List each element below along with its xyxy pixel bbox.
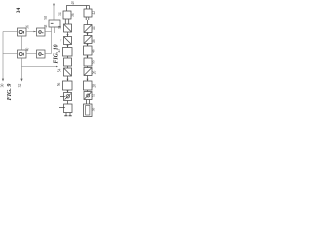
svg-text:46: 46 xyxy=(92,39,96,43)
svg-text:34: 34 xyxy=(16,8,22,14)
svg-text:28: 28 xyxy=(93,84,97,88)
svg-text:34: 34 xyxy=(58,12,62,16)
svg-text:FIG. 10: FIG. 10 xyxy=(53,44,59,63)
svg-text:30: 30 xyxy=(1,84,5,88)
svg-text:40: 40 xyxy=(26,48,30,52)
svg-text:FIG. 9: FIG. 9 xyxy=(7,84,13,101)
svg-text:30: 30 xyxy=(91,108,95,112)
svg-text:→: → xyxy=(59,39,63,42)
svg-text:38: 38 xyxy=(44,25,48,29)
svg-text:50: 50 xyxy=(91,60,95,64)
svg-text:52: 52 xyxy=(91,94,95,98)
svg-text:38: 38 xyxy=(58,26,62,30)
svg-text:58: 58 xyxy=(44,16,48,20)
svg-text:54: 54 xyxy=(58,69,62,73)
svg-text:36: 36 xyxy=(71,13,75,17)
svg-text:36: 36 xyxy=(26,25,30,29)
svg-text:40: 40 xyxy=(71,1,75,5)
svg-text:26: 26 xyxy=(92,71,96,75)
svg-text:42: 42 xyxy=(92,11,96,15)
svg-text:56: 56 xyxy=(57,83,61,87)
svg-text:48: 48 xyxy=(91,49,95,53)
svg-text:32: 32 xyxy=(18,84,22,88)
svg-text:44: 44 xyxy=(92,26,96,30)
